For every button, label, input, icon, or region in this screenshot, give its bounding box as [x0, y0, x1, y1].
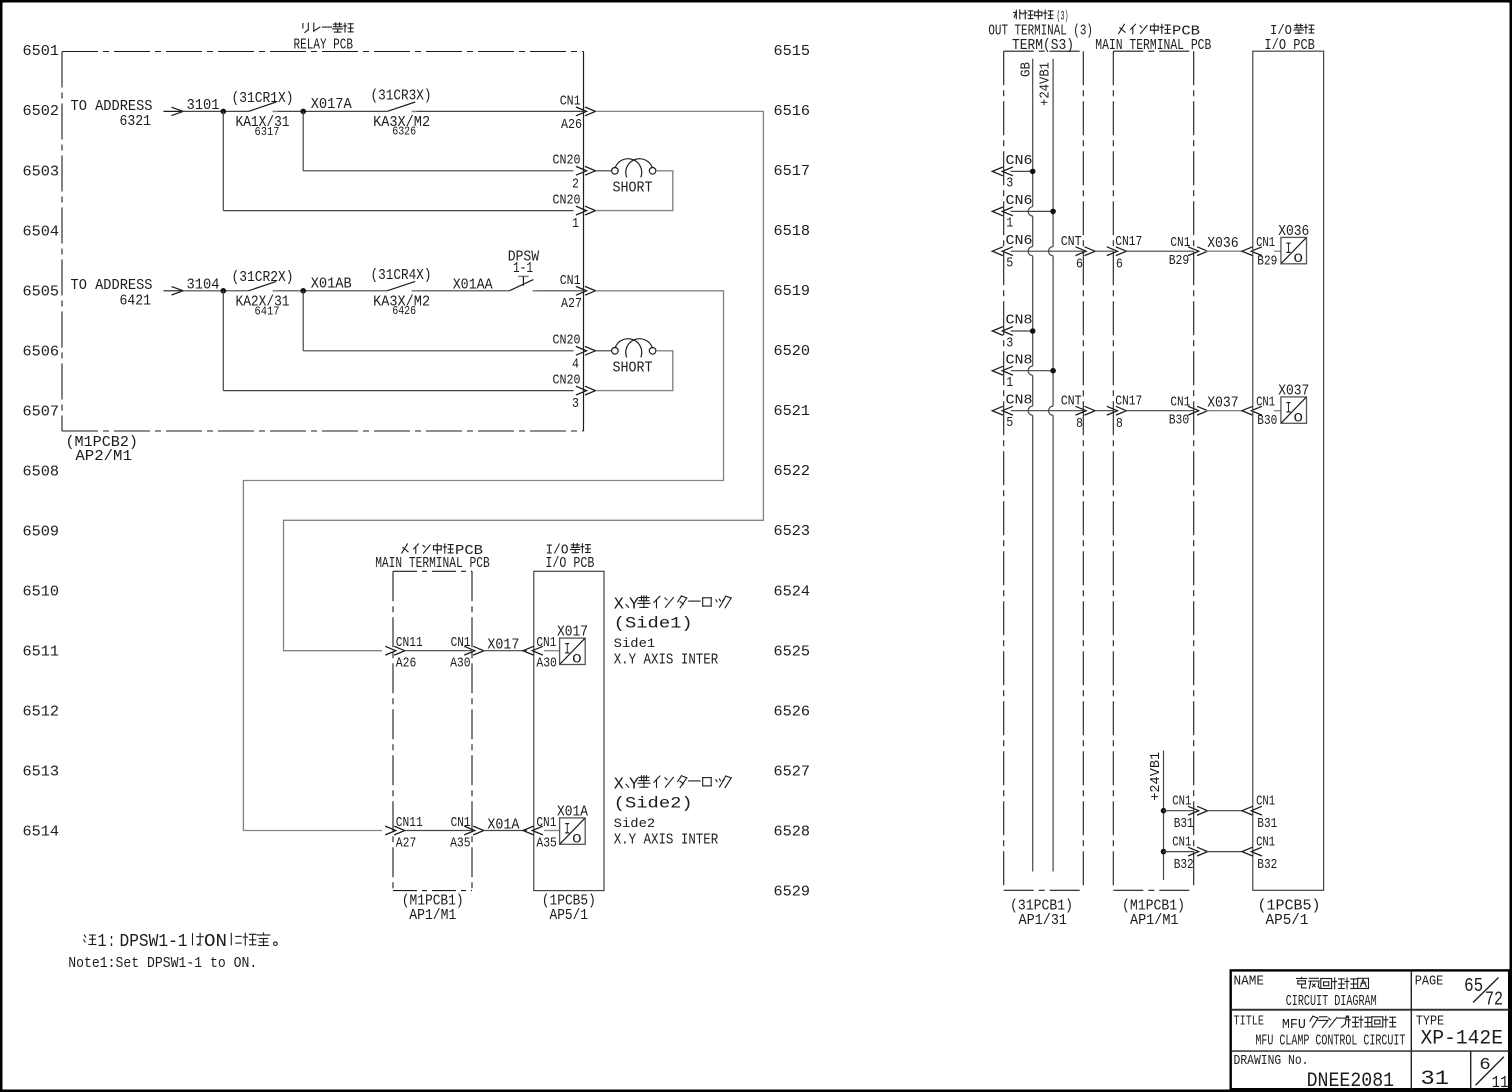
- wire node X01AB: [277, 290, 387, 292]
- svg-text:6513: 6513: [23, 764, 60, 781]
- row X036: connector CN6 pin 5 at OUT TERMINAL left edge: [992, 234, 1032, 272]
- svg-text:CN11: CN11: [396, 636, 423, 651]
- svg-text:2: 2: [572, 177, 579, 192]
- svg-text:Side2: Side2: [614, 816, 656, 831]
- svg-text:A35: A35: [450, 837, 471, 852]
- svg-text:1: 1: [98, 932, 107, 952]
- svg-text:CN1: CN1: [1256, 395, 1275, 410]
- svg-text:CN17: CN17: [1115, 235, 1142, 250]
- svg-text:A27: A27: [561, 297, 582, 312]
- svg-text:CIRCUIT DIAGRAM: CIRCUIT DIAGRAM: [1286, 993, 1377, 1010]
- lower I/O PCB board outline (I/O基板): [534, 571, 604, 890]
- wire drop to CN20 jumper (from first junction): [222, 291, 224, 391]
- svg-text:1: 1: [1006, 376, 1013, 391]
- svg-text:X: X: [614, 596, 624, 615]
- svg-text:X017: X017: [487, 637, 519, 654]
- svg-text:6506: 6506: [23, 343, 60, 360]
- connector CN20 pin 2 on relay PCB edge: [553, 154, 596, 193]
- svg-text:31: 31: [1421, 1068, 1450, 1091]
- svg-text:Side1: Side1: [614, 636, 656, 651]
- svg-text:6525: 6525: [774, 643, 811, 660]
- svg-text:CN11: CN11: [396, 816, 423, 831]
- connector CN1 pin B30 at MAIN TERMINAL right edge: [1169, 395, 1208, 428]
- OUT TERMINAL bottom label (31PCB1) AP1/31: [1010, 898, 1073, 930]
- svg-text:AP1/31: AP1/31: [1019, 912, 1068, 929]
- svg-text:5: 5: [1006, 416, 1013, 431]
- MAIN TERMINAL PCB board outline (メイン中継PCB): [1113, 51, 1193, 890]
- wire through OUT TERMINAL: [1011, 250, 1084, 252]
- svg-text:(31CR4X): (31CR4X): [371, 267, 432, 284]
- connector CN8 pin 3 at OUT TERMINAL left edge: [992, 314, 1032, 352]
- svg-text:A27: A27: [396, 837, 417, 852]
- svg-text::: :: [108, 932, 115, 952]
- svg-text:CN8: CN8: [1006, 314, 1033, 329]
- wire through OUT TERMINAL: [1011, 410, 1084, 412]
- svg-text:NAME: NAME: [1234, 974, 1265, 990]
- wire node X01A: [483, 830, 527, 832]
- title block PAGE cell 65/72: [1415, 974, 1503, 1011]
- svg-text:SHORT: SHORT: [613, 179, 653, 196]
- svg-text:MAIN TERMINAL PCB: MAIN TERMINAL PCB: [375, 555, 490, 572]
- lower I/O PCB labels: [545, 544, 594, 573]
- wire to CN1 connector: [416, 110, 583, 112]
- wire: [1011, 370, 1053, 372]
- svg-text:CN17: CN17: [1115, 395, 1142, 410]
- connector CN1 pin A30 out of lower MAIN box: [450, 636, 484, 672]
- svg-text:O: O: [1294, 251, 1304, 266]
- note annotations at bottom left: [68, 932, 277, 972]
- wire: [1011, 170, 1033, 172]
- svg-text:AP5/1: AP5/1: [1266, 912, 1309, 929]
- svg-text:6511: 6511: [23, 644, 60, 661]
- svg-text:A35: A35: [536, 837, 557, 852]
- svg-text:6426: 6426: [392, 304, 416, 318]
- connector CN1 pin B29 at MAIN TERMINAL right edge: [1169, 236, 1208, 269]
- svg-text:CN8: CN8: [1006, 353, 1033, 368]
- svg-text:6514: 6514: [23, 824, 60, 841]
- svg-text:A26: A26: [396, 657, 417, 672]
- wire through MAIN TERMINAL board: [1124, 410, 1193, 412]
- svg-text:6515: 6515: [774, 43, 811, 60]
- svg-text:3104: 3104: [187, 277, 220, 294]
- svg-text:B32: B32: [1174, 858, 1194, 873]
- svg-text:CN8: CN8: [1006, 393, 1033, 408]
- wire +24VB1 to CN1 B31: [1164, 810, 1194, 812]
- relay contact 31CR3X KA3X/M2: [371, 88, 432, 139]
- svg-text:A26: A26: [561, 118, 582, 133]
- svg-text:B31: B31: [1257, 817, 1277, 832]
- svg-text:A30: A30: [536, 657, 557, 672]
- wire across lower MAIN box: [404, 650, 472, 652]
- svg-text:(31CR2X): (31CR2X): [232, 269, 294, 286]
- title block NAME cell: [1234, 974, 1377, 1011]
- I/O symbol X036: [1278, 223, 1309, 266]
- junction dot +24VB1 to B31: [1161, 808, 1167, 814]
- wire drop to CN20 jumper (from first junction): [222, 111, 224, 210]
- junction dot at 3101: [221, 109, 227, 115]
- svg-text:CN6: CN6: [1006, 234, 1033, 249]
- title block outer frame: [1231, 970, 1510, 1089]
- svg-text:MFU: MFU: [1282, 1018, 1306, 1033]
- junction dot on rail: [1050, 209, 1056, 215]
- svg-text:6317: 6317: [255, 125, 280, 139]
- title block TITLE cell: [1234, 1013, 1406, 1049]
- svg-text:6524: 6524: [774, 583, 811, 600]
- svg-text:6529: 6529: [774, 883, 811, 900]
- relay PCB label: [294, 23, 354, 54]
- power rail GB (vertical): [1032, 59, 1034, 207]
- svg-text:(3): (3): [1057, 9, 1069, 24]
- connector CNT pin 8 at OUT TERMINAL right edge: [1061, 395, 1095, 432]
- svg-text:ON: ON: [204, 932, 227, 952]
- connector CN1 pin B31 at I/O PCB left edge: [1242, 794, 1277, 832]
- annotation X,Y axis interlock Side2: [614, 775, 732, 848]
- wire from CN1 A26 to lower MAIN TERMINAL PCB CN11 A26 (side1): [284, 111, 764, 650]
- I/O PCB bottom label (1PCB5) AP5/1: [1258, 898, 1321, 930]
- svg-text:6517: 6517: [774, 163, 811, 180]
- node 3101 input arrow TO ADDRESS 6321: [71, 98, 184, 130]
- svg-text:6504: 6504: [23, 223, 60, 240]
- connector CN11 pin A26 into lower MAIN box: [385, 636, 423, 672]
- relay PCB board outline (リレー基板 RELAY PCB): [62, 52, 584, 432]
- OUT TERMINAL(3) board outline (外部中継(3) TERM(S3)): [1004, 51, 1084, 890]
- I/O symbol X037: [1278, 382, 1309, 425]
- svg-text:CN1: CN1: [536, 636, 556, 651]
- svg-text:CN1: CN1: [1256, 794, 1275, 809]
- connector CN20 pin 3 on relay PCB edge: [553, 373, 596, 412]
- SHORT jumper plug symbol: [596, 339, 673, 391]
- svg-text:XP-142E: XP-142E: [1421, 1027, 1504, 1050]
- svg-text:X.Y AXIS INTER: X.Y AXIS INTER: [614, 652, 719, 669]
- svg-text:6521: 6521: [774, 403, 811, 420]
- svg-text:CN1: CN1: [1256, 835, 1275, 850]
- svg-text:TERM(S3): TERM(S3): [1012, 37, 1074, 54]
- svg-text:SHORT: SHORT: [613, 359, 653, 376]
- relay contact 31CR2X KA2X/31: [232, 269, 294, 318]
- svg-text:3101: 3101: [187, 97, 220, 114]
- wire to I/O symbol: [544, 830, 560, 832]
- svg-text:AP5/1: AP5/1: [550, 907, 589, 924]
- svg-text:6526: 6526: [774, 703, 811, 720]
- power rail +24VB1 (vertical): [1052, 59, 1054, 247]
- svg-text:MFU CLAMP CONTROL CIRCUIT: MFU CLAMP CONTROL CIRCUIT: [1255, 1032, 1405, 1049]
- svg-text:3: 3: [572, 397, 579, 412]
- svg-text:CN6: CN6: [1006, 194, 1033, 209]
- svg-text:6501: 6501: [23, 43, 60, 60]
- svg-text:X01AA: X01AA: [453, 276, 493, 293]
- lower MAIN TERMINAL PCB board outline (メイン中継PCB): [393, 571, 472, 890]
- wire node X01AA: [416, 290, 509, 292]
- connector CN1 pin A30 into lower I/O box: [523, 636, 557, 672]
- svg-text:6519: 6519: [774, 283, 811, 300]
- svg-text:6508: 6508: [23, 463, 60, 480]
- svg-text:X036: X036: [1207, 235, 1239, 252]
- svg-text:X037: X037: [1207, 395, 1239, 412]
- svg-text:6528: 6528: [774, 823, 811, 840]
- annotation X,Y axis interlock Side1: [614, 596, 732, 669]
- connector CN11 pin A27 into lower MAIN box: [385, 816, 423, 852]
- title block revision 6/11: [1476, 1056, 1509, 1092]
- wire node X036: [1205, 250, 1242, 252]
- lower MAIN TERMINAL PCB labels: [375, 544, 490, 573]
- svg-text:11: 11: [1492, 1074, 1509, 1092]
- svg-text:4: 4: [572, 357, 579, 372]
- connector CN17 pin 6 at MAIN TERMINAL left edge: [1107, 235, 1142, 272]
- svg-text:3: 3: [1006, 177, 1013, 192]
- wire 3104: [183, 290, 249, 292]
- connector CN1 pin B32 at I/O PCB left edge: [1242, 835, 1277, 873]
- svg-text:6520: 6520: [774, 343, 811, 360]
- svg-text:O: O: [1294, 411, 1304, 426]
- svg-text:I: I: [1286, 400, 1292, 418]
- svg-text:I/O PCB: I/O PCB: [1264, 37, 1315, 54]
- svg-text:6518: 6518: [774, 223, 811, 240]
- svg-text:B30: B30: [1169, 414, 1190, 429]
- lower I/O box bottom label (1PCB5) AP5/1: [542, 893, 596, 925]
- svg-text:6321: 6321: [120, 113, 152, 130]
- svg-text:DNEE2081: DNEE2081: [1307, 1070, 1395, 1092]
- junction dot at X017A: [300, 109, 306, 115]
- svg-text:6: 6: [1076, 257, 1083, 272]
- svg-text:Y: Y: [629, 596, 639, 615]
- MAIN TERMINAL PCB labels: [1095, 24, 1211, 54]
- I/O symbol X01A: [557, 803, 588, 846]
- svg-text:A30: A30: [450, 657, 471, 672]
- connector CN20 pin 4 on relay PCB edge: [553, 334, 596, 373]
- connector CN6 pin 3 at OUT TERMINAL left edge: [992, 154, 1032, 192]
- svg-text:6: 6: [1116, 257, 1123, 272]
- svg-text:6507: 6507: [23, 403, 60, 420]
- wire across lower MAIN box: [404, 830, 472, 832]
- svg-text:6510: 6510: [23, 584, 60, 601]
- wire to I/O symbol: [1274, 250, 1281, 252]
- connector CN1 pin B31 at MAIN TERMINAL right edge: [1172, 794, 1207, 832]
- svg-text:6326: 6326: [392, 125, 416, 139]
- wire node X037: [1205, 410, 1242, 412]
- svg-text:6522: 6522: [774, 463, 811, 480]
- svg-text:B29: B29: [1257, 255, 1277, 270]
- svg-text:CN1: CN1: [1172, 835, 1191, 850]
- svg-text:CN1: CN1: [451, 816, 471, 831]
- svg-text:Note1:Set DPSW1-1 to ON.: Note1:Set DPSW1-1 to ON.: [68, 955, 257, 972]
- connector CN17 pin 8 at MAIN TERMINAL left edge: [1107, 395, 1142, 432]
- svg-text:B30: B30: [1257, 414, 1277, 429]
- svg-text:Y: Y: [629, 775, 639, 794]
- wire between boards: [1094, 250, 1113, 252]
- svg-text:CN1: CN1: [1172, 794, 1191, 809]
- SHORT jumper plug symbol: [596, 159, 673, 211]
- connector CN1 pin A26 on relay PCB edge: [560, 94, 596, 132]
- svg-text:72: 72: [1485, 988, 1503, 1010]
- wire node X017: [483, 650, 527, 652]
- row X037: connector CN8 pin 5 at OUT TERMINAL left edge: [992, 393, 1032, 431]
- connector CN1 pin A35 out of lower MAIN box: [450, 816, 484, 852]
- svg-text:I: I: [564, 641, 570, 659]
- svg-text:6523: 6523: [774, 523, 811, 540]
- wire to CN1 connector: [537, 290, 583, 292]
- wire to I/O symbol: [1274, 410, 1281, 412]
- svg-text:AP2/M1: AP2/M1: [75, 448, 132, 465]
- svg-text:+24VB1: +24VB1: [1038, 62, 1053, 106]
- svg-text:8: 8: [1076, 417, 1083, 432]
- relay contact 31CR4X KA3X/M2: [371, 267, 432, 318]
- svg-text:AP1/M1: AP1/M1: [1130, 912, 1179, 929]
- wire drop to CN20 jumper (from second junction): [302, 111, 304, 170]
- switch DPSW 1-1: [508, 248, 540, 291]
- connector CN1 pin B32 at MAIN TERMINAL right edge: [1172, 835, 1207, 873]
- svg-text:6417: 6417: [255, 304, 280, 318]
- svg-text:CN1: CN1: [1256, 236, 1275, 251]
- relay contact 31CR1X KA1X/31: [232, 90, 294, 139]
- svg-text:X.Y AXIS INTER: X.Y AXIS INTER: [614, 832, 719, 849]
- svg-text:I/O PCB: I/O PCB: [545, 555, 594, 572]
- svg-text:X017A: X017A: [311, 96, 352, 113]
- svg-text:AP1/M1: AP1/M1: [409, 907, 456, 924]
- svg-text:1: 1: [572, 217, 579, 232]
- svg-text:6509: 6509: [23, 524, 60, 541]
- connector CNT pin 6 at OUT TERMINAL right edge: [1061, 235, 1095, 272]
- svg-text:B32: B32: [1257, 858, 1277, 873]
- connector CN1 pin A27 on relay PCB edge: [560, 274, 596, 312]
- svg-text:6516: 6516: [774, 103, 811, 120]
- svg-text:B31: B31: [1174, 817, 1194, 832]
- wire through MAIN TERMINAL board: [1124, 250, 1193, 252]
- svg-text:6512: 6512: [23, 704, 60, 721]
- svg-text:CN6: CN6: [1006, 154, 1033, 169]
- connector CN1 pin A35 into lower I/O box: [523, 816, 557, 852]
- wire from CN1 A27 to lower MAIN TERMINAL PCB CN11 A27 (side2): [243, 291, 723, 831]
- svg-text:CN1: CN1: [451, 636, 471, 651]
- svg-text:I: I: [1286, 240, 1292, 258]
- power rail +24VB1 on MAIN TERMINAL (vertical): [1149, 751, 1164, 880]
- connector CN6 pin 1 at OUT TERMINAL left edge: [992, 194, 1032, 232]
- wire 3101: [183, 110, 249, 112]
- svg-text:X: X: [614, 775, 624, 794]
- svg-text:1: 1: [1006, 217, 1013, 232]
- junction dot on rail: [1030, 328, 1036, 334]
- svg-text:(Side1): (Side1): [614, 615, 693, 633]
- svg-text:6502: 6502: [23, 103, 60, 120]
- svg-text:MAIN TERMINAL PCB: MAIN TERMINAL PCB: [1095, 37, 1211, 54]
- wire between boards: [1205, 810, 1242, 812]
- MAIN TERMINAL bottom label (M1PCB1) AP1/M1: [1122, 898, 1185, 930]
- svg-text:(31CR3X): (31CR3X): [371, 88, 432, 105]
- svg-text:6505: 6505: [23, 283, 60, 300]
- junction dot at X01AB: [300, 288, 306, 294]
- lower MAIN box bottom label (M1PCB1) AP1/M1: [402, 893, 464, 925]
- svg-text:I: I: [564, 821, 570, 839]
- title block TYPE cell XP-142E: [1416, 1013, 1503, 1050]
- svg-text:3: 3: [1006, 336, 1013, 351]
- wire: [1011, 330, 1033, 332]
- title block dividers: [1231, 970, 1510, 1089]
- I/O PCB board outline (right): [1253, 51, 1324, 890]
- title block DRAWING No cell: [1234, 1053, 1395, 1092]
- svg-text:CN1: CN1: [1170, 395, 1190, 410]
- I/O PCB labels (right): [1264, 24, 1315, 54]
- connector CN8 pin 1 at OUT TERMINAL left edge: [992, 353, 1032, 391]
- svg-text:6421: 6421: [120, 293, 152, 310]
- svg-text:(31CR1X): (31CR1X): [232, 90, 294, 107]
- wire: [1011, 210, 1053, 212]
- connector CN20 pin 1 on relay PCB edge: [553, 193, 596, 232]
- wire to I/O symbol: [544, 650, 560, 652]
- OUT TERMINAL labels: [988, 9, 1093, 54]
- junction dot at 3104: [221, 288, 227, 294]
- junction dot +24VB1 to B32: [1161, 849, 1167, 855]
- svg-text:(Side2): (Side2): [614, 794, 693, 812]
- I/O symbol X017: [557, 624, 588, 667]
- svg-text:RELAY PCB: RELAY PCB: [294, 36, 354, 53]
- svg-text:X01A: X01A: [487, 816, 519, 833]
- connector CN1 pin B29 at I/O PCB left edge: [1242, 236, 1277, 270]
- svg-text:8: 8: [1116, 417, 1123, 432]
- svg-text:CN1: CN1: [536, 816, 556, 831]
- svg-text:6503: 6503: [23, 163, 60, 180]
- connector CN1 pin B30 at I/O PCB left edge: [1242, 395, 1277, 429]
- svg-text:TITLE: TITLE: [1234, 1013, 1265, 1029]
- svg-text:DPSW1-1: DPSW1-1: [120, 932, 188, 952]
- node 3104 input arrow TO ADDRESS 6421: [71, 277, 184, 309]
- svg-text:X01AB: X01AB: [311, 275, 352, 292]
- svg-text:PAGE: PAGE: [1415, 974, 1444, 990]
- svg-text:B29: B29: [1169, 254, 1190, 269]
- wire between boards: [1205, 851, 1242, 853]
- relay PCB bottom label (M1PCB2) AP2/M1: [66, 434, 139, 465]
- junction dot on rail: [1050, 368, 1056, 374]
- svg-text:5: 5: [1006, 257, 1013, 272]
- wire node X017A: [277, 110, 387, 112]
- wire +24VB1 to CN1 B32: [1164, 851, 1194, 853]
- svg-text:O: O: [572, 652, 582, 667]
- svg-text:CN1: CN1: [1170, 236, 1190, 251]
- svg-text:O: O: [572, 832, 582, 847]
- svg-text:DRAWING No.: DRAWING No.: [1234, 1053, 1309, 1069]
- svg-text:1-1: 1-1: [513, 260, 533, 277]
- wire drop to CN20 jumper (from second junction): [302, 291, 304, 351]
- wire between boards: [1094, 410, 1113, 412]
- svg-text:65: 65: [1464, 975, 1483, 997]
- svg-text:GB: GB: [1020, 62, 1035, 77]
- svg-text:6527: 6527: [774, 763, 811, 780]
- svg-text:+24VB1: +24VB1: [1149, 752, 1164, 801]
- junction dot on rail: [1030, 169, 1036, 175]
